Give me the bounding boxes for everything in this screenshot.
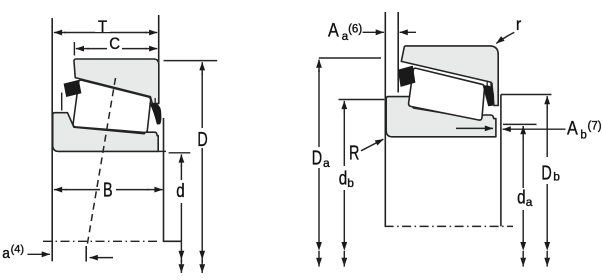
svg-text:B: B: [103, 178, 113, 201]
svg-text:D: D: [541, 161, 551, 184]
svg-text:a: a: [526, 195, 533, 209]
svg-text:r: r: [516, 14, 522, 34]
svg-text:A: A: [328, 19, 339, 41]
svg-text:b: b: [553, 170, 560, 184]
svg-text:a: a: [323, 156, 330, 170]
svg-text:(6): (6): [348, 24, 362, 36]
svg-text:(7): (7): [588, 121, 602, 133]
svg-text:C: C: [109, 35, 120, 53]
svg-text:D: D: [312, 146, 322, 169]
svg-text:a: a: [2, 245, 10, 261]
svg-text:D: D: [197, 127, 207, 150]
svg-text:b: b: [580, 130, 586, 142]
svg-text:R: R: [349, 141, 359, 164]
svg-text:d: d: [339, 167, 347, 189]
svg-text:b: b: [347, 176, 354, 190]
svg-text:d: d: [176, 179, 184, 201]
svg-text:A: A: [567, 117, 578, 139]
svg-text:(4): (4): [11, 244, 24, 256]
svg-text:d: d: [517, 186, 525, 208]
svg-text:T: T: [98, 18, 107, 36]
